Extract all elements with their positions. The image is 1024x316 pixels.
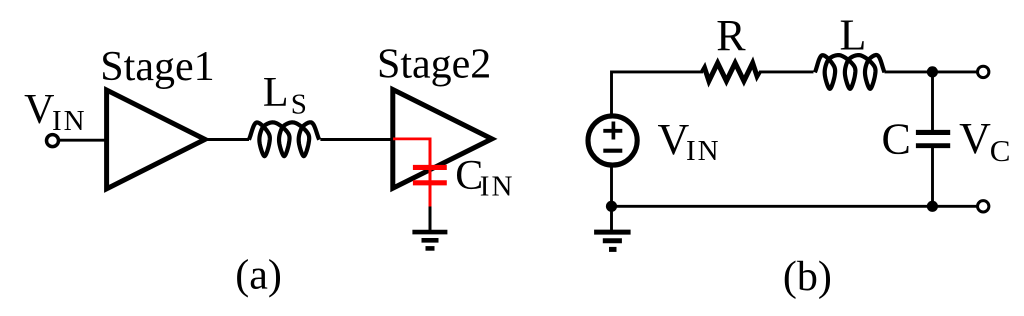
terminal bottom right — [978, 201, 989, 212]
svg-text:IN: IN — [480, 170, 515, 202]
svg-text:C: C — [990, 133, 1011, 168]
wire node down to C — [931, 72, 934, 131]
wire C down to bottom — [931, 147, 934, 206]
inductor LS — [249, 122, 319, 156]
capacitor C top plate — [916, 130, 950, 135]
wire LS to Stage2 — [320, 138, 394, 141]
wire Stage1 to LS — [204, 138, 249, 141]
svg-text:L: L — [263, 70, 289, 116]
wire bottom — [612, 205, 977, 208]
minus sign — [603, 149, 622, 153]
svg-text:Stage2: Stage2 — [377, 42, 491, 88]
wire black vertical to ground (a) — [429, 200, 432, 232]
terminal top right — [978, 66, 989, 77]
wire top-left corner (b) — [612, 72, 704, 117]
capacitor CIN top plate — [413, 165, 447, 170]
wire VIN to Stage1 — [58, 139, 107, 142]
op-amp Stage2 — [393, 90, 492, 189]
inductor L — [815, 55, 885, 89]
wire L to terminal — [885, 70, 977, 73]
svg-text:IN: IN — [686, 135, 721, 167]
voltage source VIN circle — [588, 116, 637, 165]
node dot bottom mid — [927, 201, 938, 212]
wire source bottom to ground — [610, 165, 613, 232]
svg-text:S: S — [291, 89, 307, 121]
resistor R — [702, 63, 759, 81]
svg-text:(b): (b) — [783, 254, 832, 300]
wire red vertical through CIN — [429, 138, 432, 207]
svg-text:R: R — [716, 11, 746, 60]
wire R to L — [759, 70, 814, 73]
op-amp Stage1 — [107, 90, 205, 189]
svg-text:Stage1: Stage1 — [100, 44, 214, 90]
svg-text:C: C — [882, 114, 911, 163]
svg-text:IN: IN — [52, 105, 87, 137]
svg-text:V: V — [658, 115, 690, 164]
svg-text:L: L — [840, 11, 867, 60]
ground (a) — [412, 232, 447, 248]
capacitor CIN bottom plate — [413, 180, 447, 185]
svg-text:V: V — [24, 87, 54, 133]
node dot bottom left — [606, 201, 617, 212]
terminal input port (a) — [47, 135, 59, 147]
plus sign — [603, 122, 622, 140]
ground (b) — [594, 232, 631, 249]
node dot top — [927, 66, 938, 77]
svg-text:(a): (a) — [235, 253, 282, 299]
capacitor C bottom plate — [916, 143, 950, 148]
svg-text:V: V — [959, 114, 991, 163]
wire red horizontal (Stage2 input to CIN) — [393, 137, 430, 140]
